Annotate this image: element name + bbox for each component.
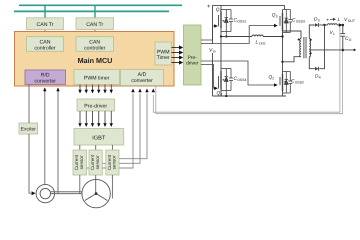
C_OSS4 snubber: [221, 69, 233, 97]
PWM Timer (right edge of MCU): [155, 42, 172, 65]
CAN controller 2: [76, 37, 114, 52]
svg-text:Main MCU: Main MCU: [78, 56, 113, 65]
Vin negative wire: [212, 53, 214, 96]
wire IGBT to current sensor 2: [95, 145, 97, 150]
C_OSS2 snubber: [283, 72, 293, 94]
node A left leg: [220, 35, 222, 37]
Pre-driver box (power stage): [184, 25, 202, 85]
return terminal: [353, 49, 355, 51]
secondary bottom lead to D4: [309, 57, 315, 69]
bottom rail: [213, 95, 287, 97]
svg-text:3: 3: [276, 15, 278, 19]
svg-text:4: 4: [319, 76, 321, 80]
node Vout: [342, 24, 345, 27]
svg-text:converter: converter: [131, 78, 153, 84]
node D3/D4 junction: [323, 24, 325, 26]
svg-text:controller: controller: [34, 45, 56, 51]
wire Exciter to resolver: [29, 134, 31, 193]
top rail: [213, 4, 285, 6]
svg-text:controller: controller: [84, 45, 106, 51]
svg-text:sensor: sensor: [79, 155, 84, 169]
wire R/D to Exciter: [28, 85, 30, 124]
bus drop to CAN Tr 1: [44, 5, 46, 18]
svg-text:2: 2: [272, 77, 274, 81]
bus drop to CAN Tr 2: [94, 5, 96, 18]
svg-text:3: 3: [318, 19, 320, 23]
current sensor 2 output wire to A/D: [102, 94, 140, 164]
svg-text:4: 4: [220, 93, 222, 97]
wire D3 to L: [319, 24, 327, 26]
arrow of sense wire into A/D: [152, 89, 155, 93]
gate line Q3: [201, 26, 276, 44]
current sensor 3 output wire to A/D: [119, 94, 147, 159]
arrows Pre-driver to IGBT: [80, 111, 111, 124]
svg-text:OSS1: OSS1: [237, 20, 246, 24]
current sensor box 1: [73, 150, 87, 175]
wire D4 up to node: [319, 25, 324, 69]
resolver sin wire to R/D: [44, 88, 46, 185]
node: primary junction lower: [281, 61, 283, 63]
Exciter box: [19, 123, 38, 134]
CAN bus line 2: [14, 10, 169, 12]
motor: [82, 179, 110, 207]
arrows PWM Timer to Pre-driver (power stage): [172, 48, 182, 63]
wire L to Vout node: [337, 24, 340, 26]
CAN Tr box 2: [76, 18, 114, 30]
PWM timer (MCU): [74, 70, 120, 85]
primary bottom lead: [283, 57, 302, 62]
node: primary junction upper: [281, 35, 283, 37]
transformer polarity dots: [298, 39, 300, 41]
current sensor 1 output wire to A/D: [87, 94, 134, 169]
current sensor box 3: [106, 150, 119, 175]
Vin label: [209, 44, 219, 54]
wire CAN Tr2 to CAN controller 2: [94, 30, 96, 38]
gate line Q4: [201, 65, 216, 89]
svg-text:converter: converter: [34, 78, 56, 84]
svg-text:in: in: [213, 50, 216, 54]
wire sensor2 to motor: [95, 175, 97, 194]
wire sensor3 to motor: [111, 175, 113, 199]
svg-text:CAN Tr: CAN Tr: [36, 22, 53, 28]
transistor Q1: [219, 5, 222, 36]
transformer: [300, 37, 311, 58]
svg-text:L: L: [333, 32, 335, 36]
center tap return rail: [309, 49, 354, 51]
svg-text:L: L: [338, 17, 341, 23]
svg-text:sensor: sensor: [95, 155, 100, 169]
A/D converter: [121, 70, 164, 86]
gate line Q2: [201, 61, 276, 85]
wire IGBT to current sensor 1: [79, 145, 81, 150]
svg-text:OSS4: OSS4: [237, 78, 246, 82]
CAN Tr box 1: [27, 18, 64, 30]
IGBT box: [74, 129, 124, 146]
svg-text:Timer: Timer: [157, 55, 170, 61]
svg-text:Pre-driver: Pre-driver: [84, 104, 107, 110]
current sensor box 2: [89, 150, 102, 175]
svg-text:+: +: [207, 4, 211, 10]
svg-text:PWM timer: PWM timer: [84, 76, 110, 82]
svg-text:sensor: sensor: [112, 155, 117, 169]
capacitor Co: [340, 25, 351, 50]
Vin positive wire: [212, 5, 214, 44]
svg-text:OSS3: OSS3: [296, 20, 305, 24]
transistor Q2: [280, 37, 283, 96]
node Co return: [342, 49, 345, 52]
Pre-driver box (motor drive): [77, 99, 115, 111]
shaft resolver-motor: [51, 192, 83, 194]
CAN bus line 1: [19, 4, 182, 6]
wire CAN Tr1 to CAN controller 1: [44, 30, 46, 38]
Vout sense wire 2 (A/D to output return): [156, 50, 343, 114]
C_OSS1 snubber: [221, 10, 233, 37]
svg-text:driver: driver: [186, 61, 199, 67]
svg-text:LKG: LKG: [259, 42, 266, 46]
transistor Q4: [219, 37, 222, 97]
secondary top lead to D3: [309, 25, 315, 39]
diode D3: [314, 17, 320, 28]
svg-text:OSS2: OSS2: [295, 81, 304, 85]
gate line Q1: [201, 26, 216, 40]
svg-text:O: O: [349, 38, 352, 42]
svg-text:IGBT: IGBT: [92, 136, 106, 142]
leakage inductor L_LKG: [221, 35, 283, 37]
wire IGBT to current sensor 3: [111, 145, 113, 150]
Main MCU block: [15, 32, 175, 87]
resolver: [36, 184, 54, 202]
diode D4: [315, 67, 321, 80]
C_OSS3 snubber: [283, 10, 293, 33]
resolver cos wire to R/D: [57, 88, 59, 194]
transistor Q3: [280, 5, 285, 37]
arrows PWM timer to Pre-driver: [80, 85, 111, 91]
svg-text:Exciter: Exciter: [21, 127, 37, 133]
inductor L with iL arrow: [328, 17, 341, 25]
R/D converter: [25, 70, 66, 85]
CAN controller 1: [27, 37, 64, 52]
wire sensor1 to motor: [79, 175, 81, 194]
primary top lead: [283, 31, 302, 39]
Vout sense wire 1 (A/D to output return): [153, 25, 340, 112]
svg-text:CAN Tr: CAN Tr: [86, 22, 103, 28]
svg-text:OUT: OUT: [348, 19, 355, 23]
svg-text:+: +: [326, 18, 329, 24]
